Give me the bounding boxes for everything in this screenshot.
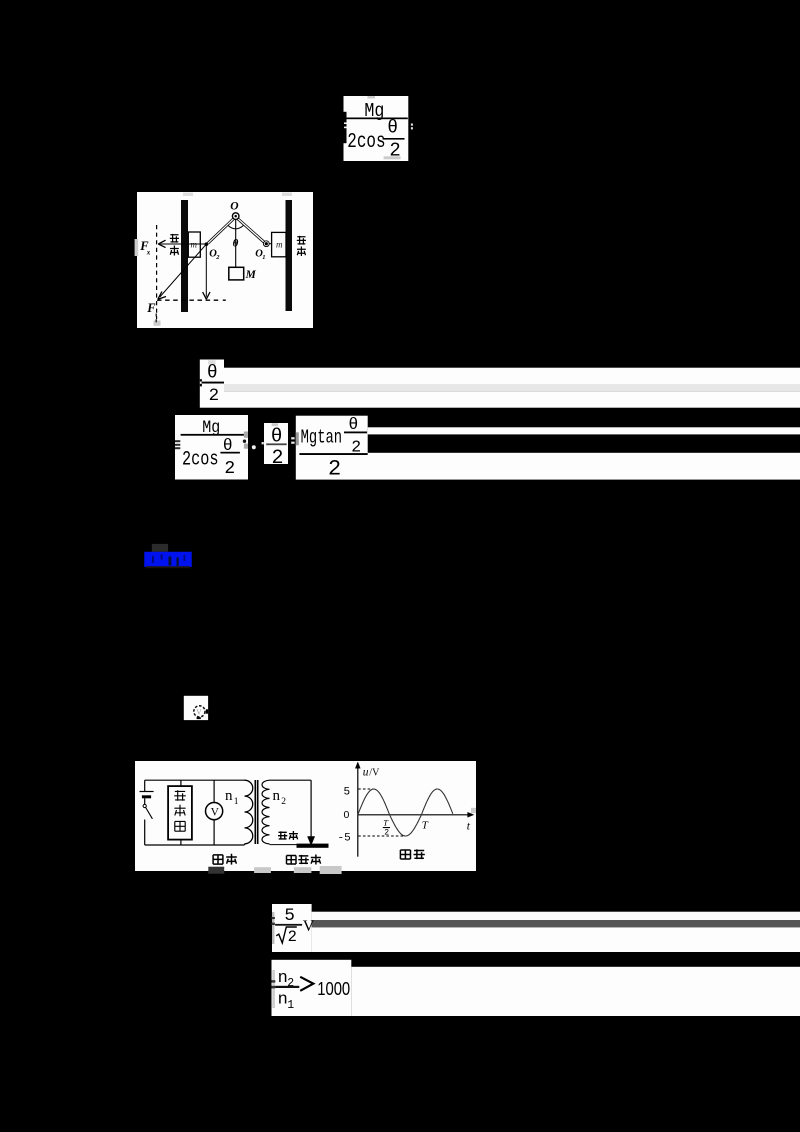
circuit box bottom artifacts <box>208 867 224 874</box>
left gray bar artifact <box>272 912 274 944</box>
vertical dashed construction line <box>156 225 158 319</box>
primary top wire <box>145 779 245 781</box>
dark gray box above blue mark <box>152 544 168 552</box>
right baffle label dang-ban <box>297 236 306 245</box>
F1 left black notch with = remnant <box>344 112 347 143</box>
caption tu-yi (figure B) <box>400 850 410 859</box>
svg-text:2cos: 2cos <box>347 131 385 154</box>
svg-text:5: 5 <box>344 787 351 799</box>
svg-text:θ: θ <box>233 238 239 250</box>
hanging block M <box>229 267 244 280</box>
transformer core double bars <box>255 780 257 844</box>
svg-text:2: 2 <box>288 928 297 946</box>
svg-text:V: V <box>303 918 315 935</box>
dashed level -5 <box>358 835 404 837</box>
row n2n1 white band <box>351 967 800 1016</box>
steel needle wire <box>310 780 312 837</box>
svg-text:θ: θ <box>348 415 358 434</box>
fraction bar n2/n1 <box>275 986 299 988</box>
svg-text:2: 2 <box>328 457 341 482</box>
svg-text:T: T <box>422 820 429 832</box>
metal plate bar <box>297 844 329 848</box>
battery short thick plate <box>142 795 151 798</box>
F1 bottom gray tick <box>384 156 401 159</box>
boxC left white equal remnant <box>291 437 294 439</box>
node O1 dot with ring and link <box>263 241 269 247</box>
svg-text:m: m <box>276 240 283 250</box>
svg-text:0: 0 <box>344 809 350 821</box>
svg-text:n: n <box>273 788 281 804</box>
battery long plate <box>140 791 154 793</box>
svg-text:2: 2 <box>224 459 235 479</box>
boxC main bar <box>299 453 367 455</box>
boxC left gray block <box>296 432 299 445</box>
svg-text:O: O <box>230 201 238 213</box>
secondary bottom wire <box>270 844 297 846</box>
formula image F1 white box <box>344 96 409 161</box>
row 5/sqrt2 formula white box <box>272 904 312 952</box>
right block m <box>272 232 286 256</box>
svg-text:1: 1 <box>262 254 265 261</box>
svg-text:x: x <box>146 249 151 257</box>
right wall (baffle) <box>286 200 293 311</box>
svg-text:u: u <box>363 767 369 779</box>
converter top stub <box>180 780 182 786</box>
steel needle label gang-zhen <box>278 831 287 839</box>
boxC thin strip to right <box>368 427 800 434</box>
svg-text:1: 1 <box>234 797 239 807</box>
left edge gray nub <box>135 239 139 256</box>
svg-text:1: 1 <box>287 999 294 1012</box>
svg-text:n: n <box>225 788 233 804</box>
blue blob bottom dark edge <box>146 566 190 568</box>
F1 fraction bar <box>346 118 408 120</box>
svg-text:/V: /V <box>369 768 380 779</box>
row 5/sqrt2 dark gray band <box>312 920 800 927</box>
white multiplication dot between A and B <box>252 445 256 449</box>
svg-text:2: 2 <box>287 977 294 990</box>
fraction bar <box>275 924 302 926</box>
svg-text:2cos: 2cos <box>182 449 219 472</box>
svg-text:θ: θ <box>207 364 218 384</box>
wire switch to bottom <box>144 820 146 846</box>
F1 top gray tick <box>367 96 375 99</box>
left equal remnant <box>272 980 276 982</box>
voltmeter symbol white box <box>184 696 208 720</box>
voltmeter right black mark <box>206 709 208 713</box>
short dashed tail below F <box>155 314 157 324</box>
line1 fraction bar <box>202 382 224 384</box>
boxC small bar <box>344 432 367 434</box>
voltmeter dashed circle <box>194 706 205 717</box>
battery branch upper wire <box>144 780 146 791</box>
boxB left white dash remnant <box>262 442 264 444</box>
line2 box C upper white (Mgtan theta/2) <box>296 416 368 454</box>
dashed level +5 <box>358 788 374 790</box>
line1 top gray tick <box>208 360 216 364</box>
primary bottom wire <box>145 844 245 846</box>
svg-text:M: M <box>245 269 257 281</box>
node O2 dot <box>205 242 209 246</box>
secondary top wire <box>270 779 312 781</box>
svg-text:2: 2 <box>215 254 220 261</box>
left equal remnant <box>272 917 275 919</box>
svg-text:F: F <box>146 301 156 315</box>
boxA small bar <box>220 452 240 454</box>
switch pivot circle <box>143 804 146 807</box>
boxA right gray remnants and dot <box>244 432 248 438</box>
svg-text:2: 2 <box>272 447 284 470</box>
boxA left equal-sign remnant <box>175 440 180 442</box>
diagram top gray ticks <box>183 193 193 197</box>
metal plate label jin-shu-ban <box>287 856 297 865</box>
vertical component arrow <box>205 246 207 297</box>
string O-O1 double line <box>239 218 266 242</box>
left wall (baffle) <box>181 200 188 312</box>
angle theta arc <box>228 225 244 229</box>
mechanics diagram white box <box>137 192 313 328</box>
line1 light gray strip <box>224 384 800 391</box>
svg-text:Mgtan: Mgtan <box>301 427 343 449</box>
wire battery to switch <box>144 798 146 804</box>
line1 theta/2 white box <box>200 360 224 408</box>
converter bottom stub <box>180 840 182 845</box>
svg-text:-5: -5 <box>338 833 351 845</box>
graph y axis <box>357 766 359 857</box>
voltmeter branch wire upper <box>213 780 215 802</box>
line2 box A white <box>175 415 248 480</box>
voltmeter branch wire lower <box>213 820 215 845</box>
svg-text:2: 2 <box>281 797 286 807</box>
left baffle label dang-ban <box>170 234 179 243</box>
horizontal force arrow Fx <box>161 243 207 245</box>
left gray bar artifact <box>272 970 275 1008</box>
graph x axis <box>358 814 470 816</box>
converter box (zhuan-huan-qi) <box>168 786 192 840</box>
horizontal dashed line at F level <box>157 299 219 301</box>
radical sqrt 2 <box>276 927 297 943</box>
needle arrowhead <box>308 837 315 846</box>
svg-text:2: 2 <box>384 829 389 838</box>
svg-text:2: 2 <box>209 386 220 406</box>
F1 small fraction bar <box>383 138 405 140</box>
greater-than sign <box>300 977 313 991</box>
switch blade <box>146 807 153 818</box>
line2 box B white theta/2 <box>264 423 288 464</box>
circuit figure white box <box>135 761 476 871</box>
primary coil n1 humps <box>245 780 253 844</box>
blue highlight blob <box>144 552 191 567</box>
bottom gray blob under F <box>154 321 161 326</box>
row 5/sqrt2 white band below <box>312 927 800 952</box>
svg-text:5: 5 <box>284 906 295 926</box>
boxC lower band full width <box>296 453 800 480</box>
svg-text:2: 2 <box>389 139 400 161</box>
line1 left edge black notches <box>200 379 202 381</box>
node O circle with dot <box>232 213 239 220</box>
sine curve <box>358 789 453 836</box>
svg-text:θ: θ <box>387 119 398 139</box>
svg-text:V: V <box>211 806 220 818</box>
voltmeter circle V <box>206 803 223 820</box>
string O-O2 double line <box>207 218 233 243</box>
vertical string O to M <box>235 220 237 268</box>
row n2n1 formula white box <box>272 960 352 1016</box>
boxA fraction bar <box>181 434 244 436</box>
left block m <box>188 232 200 257</box>
F1 right white remnant marks <box>411 124 413 126</box>
secondary coil n2 humps <box>262 780 269 844</box>
line1 white strip <box>224 368 800 384</box>
voltmeter bottom black mark <box>197 717 201 719</box>
blue blob dark glyph texture <box>152 556 154 563</box>
svg-text:V: V <box>196 708 202 717</box>
diagonal force arrow F <box>160 244 207 297</box>
row 5/sqrt2 white strip above gray <box>312 912 800 920</box>
caption tu-jia (figure A) <box>213 855 223 864</box>
line1 lower white strip <box>224 391 800 407</box>
gray artifact right of axis <box>471 808 476 813</box>
svg-text:1000: 1000 <box>317 979 350 999</box>
